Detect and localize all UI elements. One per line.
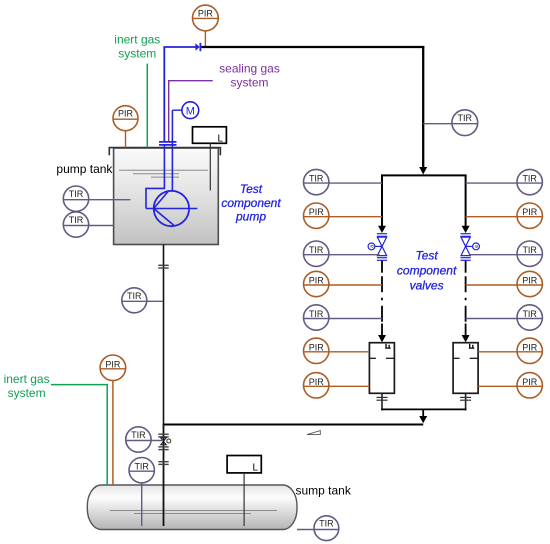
svg-text:inert gas: inert gas: [114, 33, 160, 47]
svg-text:L: L: [252, 463, 258, 474]
svg-text:TIR: TIR: [309, 174, 324, 184]
svg-text:e: e: [474, 245, 480, 248]
flange ticks drain: [158, 265, 168, 268]
wire right branch upper: [465, 175, 467, 228]
svg-text:TIR: TIR: [309, 245, 324, 255]
svg-text:TIR: TIR: [127, 291, 142, 301]
svg-text:component: component: [221, 196, 281, 210]
flow meter F2: [453, 343, 478, 394]
svg-text:PIR: PIR: [105, 359, 121, 369]
pump tank liquid level: [119, 170, 208, 177]
svg-text:M: M: [186, 105, 195, 117]
sump tank body: [87, 485, 297, 530]
valve V-e: [461, 234, 480, 261]
svg-text:PIR: PIR: [309, 342, 325, 352]
wire main feed blue horizontal: [163, 46, 195, 48]
svg-text:valves: valves: [410, 279, 444, 293]
motor M1: [172, 102, 198, 119]
wire main feed black horizontal: [201, 46, 424, 48]
svg-text:PIR: PIR: [198, 9, 214, 19]
pump P1: [146, 191, 197, 226]
svg-text:pump tank: pump tank: [56, 162, 113, 176]
instrument TIR L1: [304, 169, 383, 194]
slope marker: [307, 431, 320, 435]
flow meter F1: [369, 343, 394, 394]
svg-text:PIR: PIR: [522, 207, 538, 217]
valve V-e actuator letter: [474, 245, 480, 248]
instrument PIR top: [193, 5, 219, 46]
arrow into manifold: [419, 167, 427, 175]
svg-text:sealing gas: sealing gas: [219, 62, 280, 76]
svg-text:sump tank: sump tank: [296, 484, 352, 498]
sump tank liquid level: [110, 511, 277, 514]
level box L2: [227, 456, 261, 527]
instrument PIR pump tank: [113, 106, 138, 148]
wire motor shaft: [171, 110, 173, 191]
instrument PIR L6: [304, 338, 370, 363]
svg-text:TIR: TIR: [522, 309, 537, 319]
instrument TIR R1: [466, 169, 543, 194]
instrument PIR L4: [304, 271, 383, 296]
instrument TIR sump right: [297, 516, 339, 541]
arrow into left flow meter: [378, 324, 386, 343]
wire manifold bottom: [381, 408, 466, 410]
instrument TIR R5: [466, 305, 543, 330]
arrow into right flow meter: [462, 324, 470, 343]
wire left branch upper: [381, 175, 383, 228]
wire manifold top: [381, 174, 467, 176]
instrument PIR R2: [466, 203, 543, 228]
instrument TIR drain: [122, 288, 163, 313]
wire manifold drop: [422, 409, 424, 417]
pump tank lid: [109, 148, 220, 156]
instrument PIR R7: [478, 373, 542, 398]
svg-text:TIR: TIR: [134, 462, 149, 472]
svg-text:Test: Test: [240, 182, 263, 196]
wire right branch below valve solid: [465, 261, 467, 273]
svg-text:PIR: PIR: [522, 377, 538, 387]
svg-text:TIR: TIR: [319, 519, 334, 529]
wire left branch below valve solid: [381, 261, 383, 273]
svg-text:TIR: TIR: [458, 113, 473, 123]
wire right branch dash-dot: [465, 276, 467, 323]
svg-text:inert gas: inert gas: [4, 372, 50, 386]
svg-text:TIR: TIR: [131, 430, 146, 440]
instrument PIR R4: [466, 271, 543, 296]
instrument TIR L3: [304, 241, 380, 266]
svg-text:system: system: [118, 47, 156, 61]
label test component pump: [221, 182, 281, 224]
wire pump tank drain: [163, 245, 165, 425]
sealing gland flange: [159, 142, 177, 145]
instrument PIR L7: [304, 373, 370, 398]
svg-text:Test: Test: [415, 249, 438, 263]
label sealing gas system: [219, 62, 280, 90]
label inert gas system top: [114, 33, 160, 61]
inert gas line top: [146, 64, 148, 148]
svg-text:PIR: PIR: [522, 342, 538, 352]
svg-text:TIR: TIR: [69, 215, 84, 225]
svg-text:PIR: PIR: [309, 207, 325, 217]
instrument TIR L5: [304, 305, 383, 330]
wire sump inlet: [163, 425, 165, 527]
wire return line: [163, 424, 424, 426]
svg-text:component: component: [397, 264, 457, 278]
instrument TIR return: [126, 427, 163, 452]
svg-text:system: system: [230, 76, 268, 90]
arrow into right valve: [462, 226, 470, 233]
instrument PIR L2: [304, 203, 383, 228]
instrument TIR pump tank 1: [63, 186, 130, 211]
valve V-a: [368, 234, 387, 261]
wire main feed black vertical: [422, 46, 424, 169]
inert gas line bottom: [51, 385, 107, 485]
svg-text:pump: pump: [235, 210, 266, 224]
flange ticks sump inlet lower: [158, 462, 168, 465]
level box L1: [193, 127, 227, 191]
flange ticks sump inlet mid: [158, 447, 168, 450]
flange ticks sump inlet upper: [158, 434, 168, 437]
svg-text:system: system: [8, 386, 46, 400]
svg-text:PIR: PIR: [118, 109, 134, 119]
wire left meter outlet: [381, 393, 383, 410]
instrument TIR pump tank 2: [63, 212, 113, 237]
pump tank body: [114, 148, 219, 245]
instrument PIR R6: [478, 338, 542, 363]
svg-text:TIR: TIR: [522, 174, 537, 184]
label test component valves: [397, 249, 457, 293]
arrow onto return line: [419, 416, 427, 423]
label sump tank: [296, 484, 352, 498]
svg-text:PIR: PIR: [309, 276, 325, 286]
wire right meter outlet: [465, 393, 467, 410]
svg-text:TIR: TIR: [309, 309, 324, 319]
svg-text:PIR: PIR: [309, 377, 325, 387]
instrument PIR sump: [100, 355, 126, 485]
sealing gas line: [169, 81, 213, 142]
instrument TIR sump top: [129, 458, 154, 527]
svg-text:TIR: TIR: [522, 245, 537, 255]
wire pump suction: [146, 145, 164, 209]
label pump tank: [56, 162, 113, 176]
svg-text:PIR: PIR: [522, 276, 538, 286]
flange ticks right meter outlet: [460, 397, 471, 400]
label inert gas system bottom: [4, 372, 50, 400]
wire main feed blue vertical: [163, 47, 165, 142]
valve V-a actuator letter: [369, 244, 375, 248]
instrument TIR feed right: [423, 110, 478, 136]
wire left branch dash-dot: [381, 276, 383, 323]
instrument TIR R3: [470, 241, 543, 266]
svg-text:L: L: [217, 133, 223, 144]
check valve: [195, 43, 200, 51]
svg-text:TIR: TIR: [69, 189, 84, 199]
flange ticks left meter outlet: [377, 397, 388, 400]
arrow into left valve: [378, 226, 386, 233]
hand valve on sump inlet: [161, 438, 171, 445]
